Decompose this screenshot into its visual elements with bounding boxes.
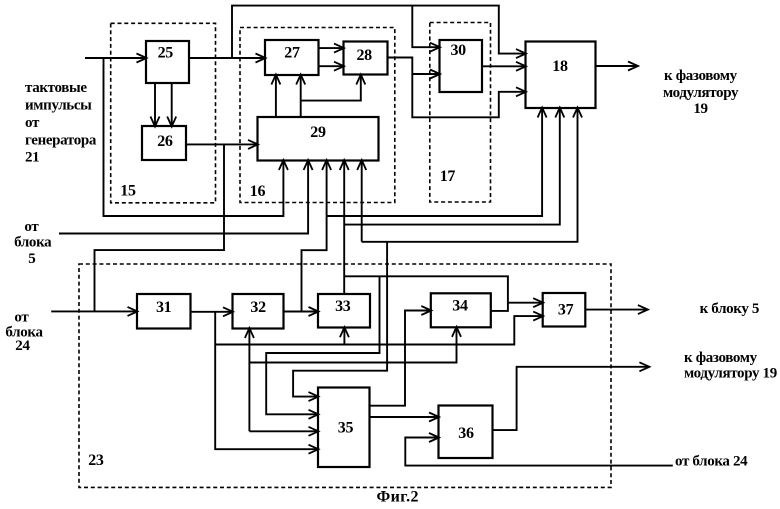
wire stem to 29 bottom input 5: [361, 161, 363, 242]
svg-text:17: 17: [440, 168, 456, 185]
wire branch to 34 output stub: [344, 276, 508, 311]
svg-text:26: 26: [157, 133, 173, 150]
block 25: [146, 41, 189, 83]
svg-text:к фазовому: к фазовому: [664, 68, 738, 84]
block 37: [543, 293, 586, 327]
block 33: [318, 294, 370, 328]
wire 26 output to 29: [186, 143, 258, 145]
wire 31 output to 32: [191, 311, 233, 313]
wire 33 top up to 29 bottom input 4: [343, 161, 345, 295]
wire 32 output branch up to 29 bottom input 3: [302, 161, 327, 312]
wire 35 output 2 to 36 input 1: [370, 416, 439, 418]
wire 25 output to 27: [189, 57, 265, 59]
svg-text:от: от: [25, 115, 40, 131]
wire 25 output top branch to 18 left input 1: [232, 6, 526, 58]
wire top branch down to 30 input 1: [412, 6, 439, 48]
block 18: [526, 42, 596, 109]
svg-text:5: 5: [28, 251, 35, 267]
wire stem to 32 bottom: [248, 329, 250, 432]
wire clock branch down to 29 bottom input 1: [104, 58, 284, 216]
block 28: [344, 42, 388, 75]
wire line to 34 bottom: [249, 327, 456, 362]
wire to 18 bottom input 3: [362, 108, 578, 242]
block 35: [318, 388, 370, 468]
svg-text:24: 24: [15, 338, 30, 354]
svg-text:тактовые: тактовые: [25, 80, 87, 96]
block 32: [233, 294, 284, 329]
svg-text:модулятору: модулятору: [663, 85, 739, 101]
block 36: [439, 406, 493, 459]
wire stem to 33 bottom: [343, 328, 345, 345]
wire clock input to 25: [85, 57, 146, 59]
wire branch down to 35 input 1: [293, 242, 387, 397]
wire branch to 18 bottom input 1: [327, 108, 542, 216]
svg-text:к блоку 5: к блоку 5: [700, 301, 759, 317]
wire to 37 input 1: [508, 302, 543, 304]
block 31: [137, 294, 191, 329]
dashed box 15: [111, 23, 216, 203]
block 29: [258, 117, 379, 161]
svg-text:импульсы: импульсы: [25, 98, 92, 114]
wire 28 output to 18 left input 3: [388, 58, 526, 118]
svg-text:23: 23: [88, 452, 104, 469]
wire 30 output to 18 left input 2: [482, 65, 526, 67]
wire 18 output to phase modulator 19: [596, 65, 638, 67]
wire 35 output 1 to 34 input: [370, 311, 431, 406]
wire 26 output branch down to 31 input line: [95, 144, 225, 311]
svg-text:модулятору 19: модулятору 19: [684, 366, 777, 382]
svg-text:32: 32: [250, 299, 266, 316]
wire 29 top to 27 bottom a: [275, 75, 277, 117]
wire branch to 18 bottom input 2: [344, 108, 560, 225]
wire to 35 input 3: [249, 430, 318, 432]
dashed box 17: [430, 23, 491, 203]
wire from block 24 to 31: [51, 310, 137, 312]
wire 32 output to 33: [284, 311, 318, 313]
svg-text:29: 29: [310, 124, 326, 141]
wire 29 top to 27 bottom b: [300, 75, 302, 117]
wire 27 to 28 line a: [319, 47, 344, 49]
svg-text:от: от: [14, 310, 29, 326]
svg-text:16: 16: [250, 183, 266, 200]
block 27: [265, 40, 319, 75]
svg-text:34: 34: [452, 298, 468, 315]
svg-text:от блока 24: от блока 24: [675, 454, 748, 470]
svg-text:36: 36: [458, 425, 474, 442]
block 26: [142, 126, 186, 160]
block 34: [431, 293, 491, 327]
wire from block 5 to 29 bottom input 2: [59, 161, 308, 234]
svg-text:от: от: [24, 219, 39, 235]
wire 27 to 28 line b: [319, 65, 344, 67]
svg-text:30: 30: [450, 42, 466, 59]
block 30: [440, 40, 483, 92]
wire 31 output branch down to 35 input 4: [215, 312, 318, 449]
svg-text:33: 33: [335, 298, 351, 315]
wire branch down to 35 input 2: [266, 276, 379, 414]
svg-text:31: 31: [156, 299, 172, 316]
svg-text:к фазовому: к фазовому: [684, 350, 758, 366]
dashed box 23: [79, 264, 611, 487]
wire 36 output to phase modulator 19: [492, 367, 649, 430]
svg-text:Фиг.2: Фиг.2: [377, 489, 419, 506]
wire 28 output branch to 30 input 2: [412, 73, 439, 75]
wire 37 output to block 5: [586, 309, 647, 311]
svg-text:37: 37: [558, 302, 574, 319]
svg-text:15: 15: [120, 183, 136, 200]
svg-text:28: 28: [356, 47, 372, 64]
dashed box 16: [240, 28, 395, 203]
svg-text:35: 35: [338, 420, 354, 437]
wire 25 to 26 double line a: [154, 83, 156, 126]
wire from block 24 to 36 input 2: [405, 438, 673, 466]
svg-text:21: 21: [25, 150, 39, 166]
svg-text:18: 18: [552, 58, 568, 75]
svg-text:блока: блока: [14, 235, 52, 251]
wire 29 branch to 28 bottom: [301, 75, 361, 101]
svg-text:27: 27: [284, 45, 300, 62]
svg-text:19: 19: [693, 101, 707, 117]
wire branch line to 37 input 2: [215, 316, 543, 344]
svg-text:генератора: генератора: [25, 133, 97, 149]
svg-text:25: 25: [158, 44, 174, 61]
wire 25 to 26 double line b: [171, 83, 173, 126]
